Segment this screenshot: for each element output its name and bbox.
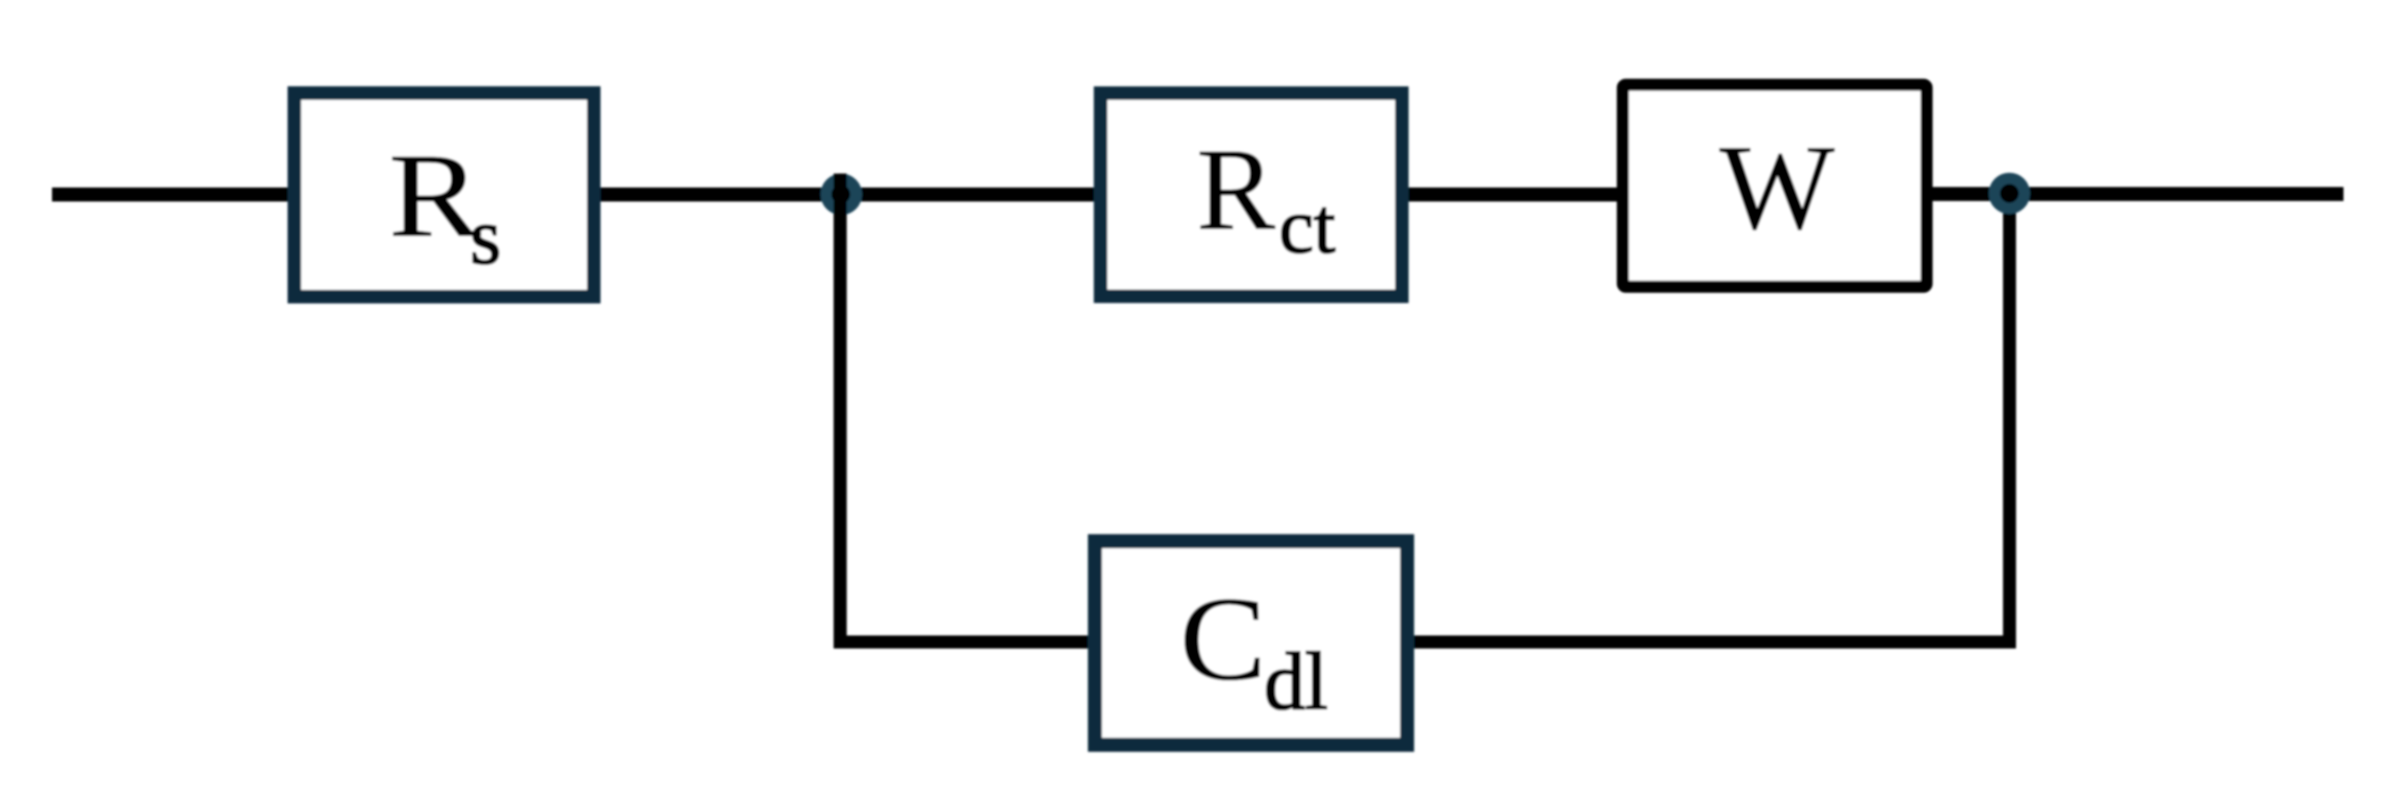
wire: left lead into Rs — [52, 188, 294, 202]
svg-text:C: C — [1180, 572, 1267, 705]
wire: bottom branch, corner A to Cdl — [834, 636, 1090, 649]
svg-text:R: R — [389, 129, 482, 262]
wire: node A to Rct — [838, 188, 1098, 202]
resistor Rs box — [294, 93, 593, 297]
wire: bottom branch, Cdl to corner B — [1412, 636, 2016, 649]
label Cdl — [1180, 572, 1328, 727]
svg-text:s: s — [470, 193, 501, 281]
svg-text:dl: dl — [1264, 636, 1328, 727]
wire: W to node B — [1930, 187, 2012, 201]
wire: node B to right lead end — [2007, 187, 2344, 201]
node A junction dot — [821, 174, 863, 216]
svg-text:W: W — [1720, 120, 1835, 255]
label Rs — [389, 129, 502, 281]
wire: Rct to W — [1406, 188, 1621, 202]
node A junction dot black center — [831, 185, 850, 204]
wire: Rs to node A — [598, 188, 844, 202]
resistor Rct box — [1101, 93, 1402, 296]
capacitor Cdl box — [1095, 541, 1407, 745]
svg-text:ct: ct — [1279, 182, 1336, 269]
svg-text:R: R — [1197, 124, 1276, 255]
label Rct — [1197, 124, 1336, 269]
node B junction dot — [1989, 173, 2030, 214]
node B junction dot black center — [2000, 184, 2019, 203]
Warburg element W box — [1623, 85, 1927, 287]
wire: right vertical riser, node B down to bottom branch — [2003, 194, 2016, 649]
wire: left vertical drop from node A to bottom branch — [834, 174, 847, 649]
